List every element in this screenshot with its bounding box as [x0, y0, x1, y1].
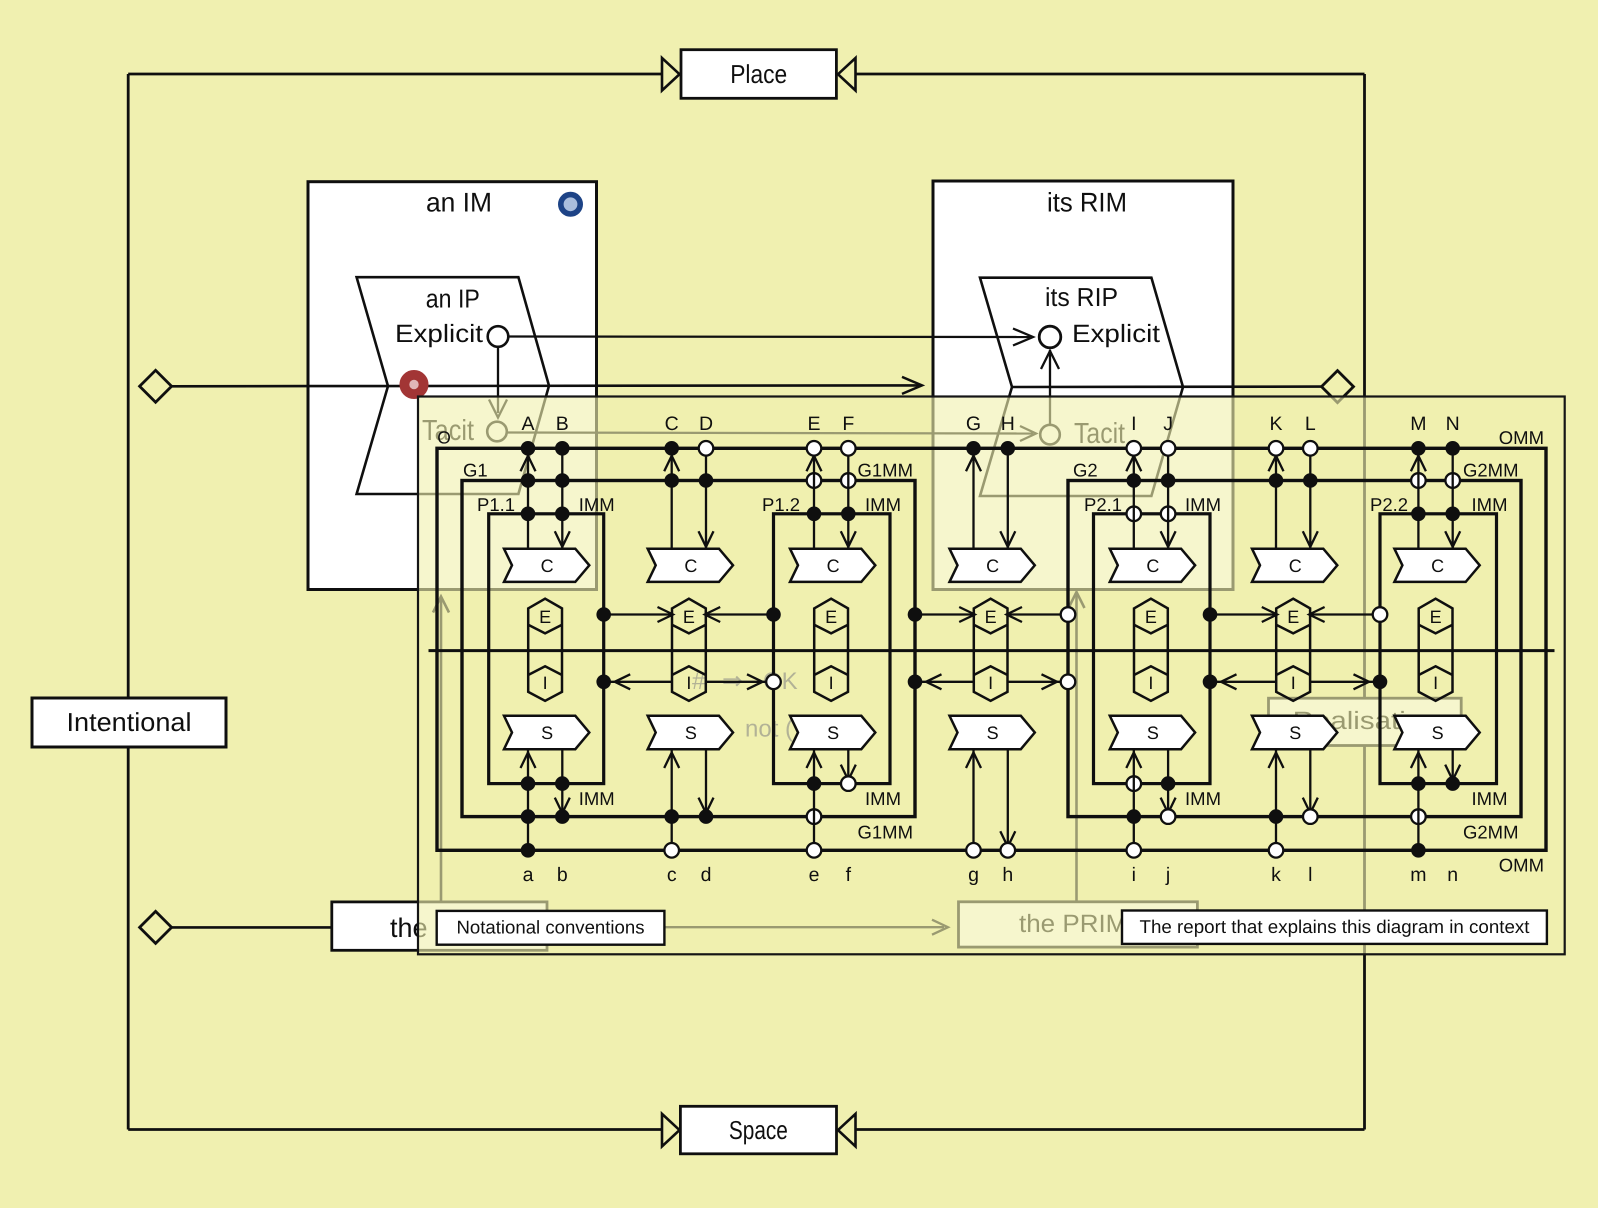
svg-text:h: h	[1002, 864, 1013, 886]
svg-text:k: k	[1271, 864, 1281, 886]
svg-text:c: c	[667, 864, 677, 886]
svg-text:S: S	[987, 723, 999, 743]
svg-text:S: S	[1289, 723, 1301, 743]
svg-text:E: E	[985, 607, 997, 627]
svg-text:IMM: IMM	[1472, 788, 1508, 809]
arrow an IP Explicit to Tacit	[489, 348, 507, 418]
its RIP Explicit port	[1039, 320, 1160, 348]
svg-text:i: i	[1132, 864, 1136, 886]
svg-text:IMM: IMM	[579, 494, 615, 515]
arrow its RIP Tacit up to Explicit	[1041, 350, 1059, 424]
svg-text:L: L	[1305, 413, 1316, 435]
svg-text:P2.1: P2.1	[1084, 494, 1122, 515]
svg-text:G2: G2	[1073, 460, 1098, 481]
svg-text:E: E	[807, 413, 820, 435]
svg-text:D: D	[699, 413, 713, 435]
E/I level connectors at unit 2	[596, 607, 780, 689]
svg-text:m: m	[1410, 864, 1426, 886]
svg-text:g: g	[968, 864, 979, 886]
svg-text:G1MM: G1MM	[858, 460, 914, 481]
svg-text:l: l	[1308, 864, 1312, 886]
svg-text:b: b	[557, 864, 568, 886]
Notational conventions annotation box	[437, 911, 665, 945]
arrow an IP Tacit to its RIP Tacit	[507, 426, 1036, 441]
svg-text:E: E	[1430, 607, 1442, 627]
svg-text:S: S	[685, 723, 697, 743]
svg-text:an IM: an IM	[426, 188, 492, 218]
left aggregation diamond (lower)	[140, 911, 172, 943]
PRIM unit 4 (G/H)	[950, 413, 1035, 886]
arrow the-IMM to the-PRIMM	[549, 920, 949, 935]
svg-text:B: B	[556, 413, 569, 435]
svg-text:O: O	[437, 428, 451, 448]
svg-text:E: E	[825, 607, 837, 627]
its RIP Tacit port	[1040, 418, 1125, 450]
svg-text:C: C	[1431, 556, 1444, 576]
arrow an IM to its RIM	[902, 377, 922, 394]
svg-text:Place: Place	[730, 59, 787, 89]
P1.2 box	[774, 514, 891, 784]
svg-text:Intentional: Intentional	[67, 707, 192, 737]
svg-text:C: C	[541, 556, 554, 576]
the-IMM box (under panel at right)	[332, 902, 547, 950]
red marker on an IP notch	[404, 375, 423, 394]
svg-text:S: S	[1147, 723, 1159, 743]
svg-text:S: S	[1432, 723, 1444, 743]
G2 box	[1068, 481, 1521, 817]
svg-text:I: I	[829, 673, 834, 693]
PRIM container boxes	[437, 448, 1546, 850]
svg-text:H: H	[1001, 413, 1015, 435]
translucent overlay panel	[418, 397, 1565, 955]
svg-text:G1: G1	[463, 460, 488, 481]
svg-text:C: C	[1146, 556, 1159, 576]
svg-text:I: I	[1131, 413, 1136, 435]
svg-text:S: S	[541, 723, 553, 743]
svg-text:j: j	[1165, 864, 1170, 886]
svg-text:G2MM: G2MM	[1463, 822, 1519, 843]
axis line from diamond to an IM / an IP notch / its RIM arrow	[172, 385, 310, 388]
faded note: # => OK	[692, 667, 798, 695]
svg-text:IMM: IMM	[1185, 494, 1221, 515]
svg-text:I: I	[686, 673, 691, 693]
svg-text:Notational conventions: Notational conventions	[457, 917, 645, 938]
OMM box	[437, 448, 1546, 850]
svg-text:e: e	[809, 864, 820, 886]
svg-text:E: E	[539, 607, 551, 627]
svg-text:I: I	[543, 673, 548, 693]
Realisation box (under panel)	[1269, 698, 1462, 745]
svg-text:an IP: an IP	[426, 284, 480, 314]
axis line through an IM / an IP to its RIM arrow	[308, 384, 919, 387]
svg-text:C: C	[986, 556, 999, 576]
Place box with generalization triangles	[662, 50, 856, 99]
svg-text:Space: Space	[729, 1115, 788, 1145]
svg-text:a: a	[523, 864, 534, 886]
svg-text:n: n	[1447, 864, 1458, 886]
svg-text:P2.2: P2.2	[1370, 494, 1408, 515]
arrow the-PRIMM up to its RIM	[1069, 592, 1085, 902]
svg-text:P1.1: P1.1	[477, 494, 515, 515]
PRIM unit 2 (C/D)	[648, 413, 733, 886]
PRIM unit 6 (K/L)	[1252, 413, 1337, 886]
svg-text:J: J	[1163, 413, 1173, 435]
line from lower diamond to the-IMM box	[172, 926, 332, 929]
svg-text:E: E	[1145, 607, 1157, 627]
right aggregation diamond	[1322, 371, 1354, 403]
svg-text:E: E	[683, 607, 695, 627]
svg-text:IMM: IMM	[1185, 788, 1221, 809]
svg-text:G1MM: G1MM	[858, 822, 914, 843]
svg-text:IMM: IMM	[865, 788, 901, 809]
svg-text:A: A	[521, 413, 534, 435]
P2.2 box	[1380, 514, 1497, 784]
svg-text:C: C	[684, 556, 697, 576]
an IP process banner	[357, 277, 549, 494]
svg-text:C: C	[1289, 556, 1302, 576]
svg-text:OMM: OMM	[1499, 427, 1544, 448]
PRIM unit 3 (E/F)	[790, 413, 875, 886]
left aggregation diamond (upper)	[140, 370, 172, 402]
svg-text:IMM: IMM	[865, 494, 901, 515]
svg-text:K: K	[1269, 413, 1282, 435]
svg-text:d: d	[701, 864, 712, 886]
svg-text:I: I	[1291, 673, 1296, 693]
svg-text:OMM: OMM	[1499, 855, 1544, 876]
P1.1 box	[489, 514, 604, 784]
axis line from its RIP notch to right diamond	[1012, 385, 1322, 388]
svg-text:not (: not (	[745, 716, 793, 743]
an IP Tacit port	[422, 415, 507, 447]
svg-text:C: C	[665, 413, 679, 435]
PRIM mid axis line	[429, 649, 1555, 652]
report annotation box	[1122, 911, 1547, 944]
an IM box	[308, 182, 597, 590]
arrow the-IMM up to an IM	[433, 597, 449, 902]
svg-text:I: I	[1433, 673, 1438, 693]
svg-text:its RIM: its RIM	[1047, 188, 1127, 218]
PRIM unit 7 (M/N)	[1394, 413, 1479, 886]
svg-text:S: S	[827, 723, 839, 743]
E/I level connectors at unit 6	[1203, 607, 1388, 689]
Intentional box	[32, 698, 226, 747]
Space box with generalization triangles	[662, 1106, 856, 1154]
P2.1 box	[1094, 514, 1211, 784]
svg-text:IMM: IMM	[1472, 494, 1508, 515]
svg-text:its RIP: its RIP	[1045, 282, 1118, 312]
svg-text:IMM: IMM	[579, 788, 615, 809]
svg-text:G: G	[966, 413, 981, 435]
outer border	[128, 74, 1364, 1130]
an IP Explicit port	[395, 320, 508, 348]
its RIP process banner	[980, 278, 1183, 496]
PRIM box labels	[437, 427, 1544, 876]
svg-text:M: M	[1410, 413, 1426, 435]
an IM blue marker icon	[561, 195, 580, 214]
PRIM unit 5 (I/J)	[1110, 413, 1195, 886]
PRIM unit 1 (A/B)	[504, 413, 589, 886]
svg-text:The report that explains this: The report that explains this diagram in…	[1140, 916, 1530, 937]
svg-text:Explicit: Explicit	[1072, 320, 1160, 348]
E/I level connectors at unit 4	[908, 607, 1076, 689]
svg-text:P1.2: P1.2	[762, 494, 800, 515]
svg-text:F: F	[842, 413, 854, 435]
the-PRIMM box (under panel)	[959, 902, 1198, 947]
G1 box	[462, 481, 915, 817]
arrow an IP Explicit to its RIP Explicit	[509, 329, 1034, 346]
svg-text:f: f	[846, 864, 852, 886]
svg-text:Explicit: Explicit	[395, 320, 483, 348]
svg-text:C: C	[827, 556, 840, 576]
svg-text:I: I	[1148, 673, 1153, 693]
svg-text:G2MM: G2MM	[1463, 460, 1519, 481]
svg-text:E: E	[1287, 607, 1299, 627]
its RIM box	[933, 181, 1233, 590]
svg-text:I: I	[988, 673, 993, 693]
svg-text:N: N	[1446, 413, 1460, 435]
